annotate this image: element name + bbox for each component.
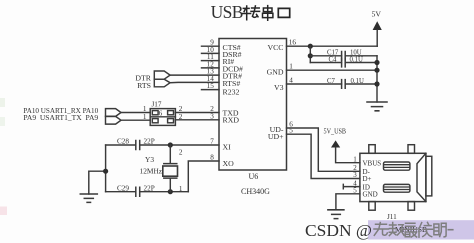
wire J17 to pin2 TXD bbox=[175, 112, 219, 114]
svg-text:PA9 USART1_TX PA9: PA9 USART1_TX PA9 bbox=[23, 113, 98, 122]
junction C4-gnd bbox=[374, 60, 379, 65]
svg-text:J17: J17 bbox=[152, 101, 162, 109]
wire to ground bbox=[89, 171, 106, 194]
svg-text:0.1U: 0.1U bbox=[350, 56, 363, 63]
wire C4 branch bbox=[310, 62, 377, 64]
svg-text:22P: 22P bbox=[144, 138, 155, 146]
svg-text:C28: C28 bbox=[117, 138, 129, 146]
wire left vertical bbox=[105, 145, 107, 192]
watermark highlight box bbox=[368, 220, 474, 239]
svg-text:2: 2 bbox=[179, 149, 183, 157]
svg-text:U6: U6 bbox=[249, 172, 259, 181]
svg-text:Y3: Y3 bbox=[145, 155, 154, 164]
svg-text:USB: USB bbox=[211, 2, 243, 22]
svg-text:CH340G: CH340G bbox=[241, 187, 270, 196]
svg-text:1: 1 bbox=[353, 155, 357, 163]
无 bbox=[374, 223, 389, 236]
svg-text:RTS: RTS bbox=[137, 81, 151, 90]
upper slot bbox=[384, 162, 410, 170]
port flag PA10 bbox=[106, 109, 122, 117]
svg-text:GND: GND bbox=[363, 191, 378, 199]
svg-text:1: 1 bbox=[143, 105, 147, 113]
svg-text:1: 1 bbox=[179, 185, 183, 193]
edge artifact strips bbox=[0, 98, 7, 215]
wire UD+ pin5 to USB D+ bbox=[287, 134, 360, 178]
wire 5V stem bbox=[376, 30, 378, 46]
svg-text:C4: C4 bbox=[329, 56, 338, 63]
svg-text:5: 5 bbox=[353, 187, 357, 195]
svg-text:1: 1 bbox=[143, 113, 147, 121]
svg-text:C29: C29 bbox=[117, 184, 129, 192]
svg-text:UD+: UD+ bbox=[268, 132, 284, 141]
U6 left pin name labels bbox=[223, 43, 243, 168]
title USB转串口 bbox=[211, 2, 290, 22]
svg-text:6: 6 bbox=[159, 109, 163, 117]
3D bevel bbox=[417, 153, 426, 201]
wire XI row bbox=[106, 144, 219, 146]
wire DTR to pin13 bbox=[170, 74, 219, 76]
junction pin1-gnd bbox=[374, 68, 379, 73]
svg-text:CSDN @: CSDN @ bbox=[305, 221, 372, 240]
svg-text:D+: D+ bbox=[363, 175, 372, 183]
ground (crystal) bbox=[80, 194, 97, 202]
wire ID stub bbox=[343, 184, 360, 188]
wire J17 to pin3 RXD bbox=[175, 119, 219, 121]
power 5V_USB symbol bbox=[331, 140, 340, 147]
wire USB GND to ground bbox=[336, 194, 360, 210]
转 bbox=[242, 6, 250, 20]
svg-text:GND: GND bbox=[267, 68, 284, 77]
hyphen bbox=[448, 229, 453, 231]
junction C7-gnd bbox=[374, 81, 379, 86]
svg-text:3: 3 bbox=[353, 171, 357, 179]
watermark CJK glyphs 无敌最俊朗- bbox=[374, 222, 453, 237]
svg-text:C7: C7 bbox=[327, 78, 336, 85]
svg-text:12MHz: 12MHz bbox=[140, 167, 163, 176]
USB connector J11 body bbox=[360, 145, 432, 211]
svg-text:5V_USB: 5V_USB bbox=[324, 127, 347, 136]
junction left-gnd bbox=[103, 169, 108, 174]
wire VCC stub down bbox=[309, 46, 311, 62]
俊 bbox=[419, 222, 432, 237]
口 bbox=[278, 8, 289, 17]
junction XI-crystal bbox=[168, 142, 173, 147]
wire C17 branch bbox=[310, 55, 377, 57]
wire VCC pin16 bbox=[287, 45, 378, 47]
svg-text:22P: 22P bbox=[144, 184, 155, 192]
wire 5V_USB stem to VBUS bbox=[336, 148, 360, 163]
svg-text:XI: XI bbox=[223, 143, 232, 152]
J11 pin numbers bbox=[353, 155, 357, 194]
wire GND vertical right bbox=[376, 56, 378, 102]
wire XO bottom row bbox=[106, 191, 189, 193]
svg-text:RXD: RXD bbox=[223, 116, 240, 125]
svg-text:V3: V3 bbox=[274, 83, 284, 92]
svg-text:R232: R232 bbox=[223, 87, 240, 96]
power 5V symbol bbox=[373, 21, 382, 30]
svg-text:0.1U: 0.1U bbox=[351, 78, 364, 85]
ground (USB) bbox=[328, 210, 344, 219]
敌 bbox=[389, 223, 404, 236]
串 bbox=[263, 6, 273, 21]
port flag PA9 bbox=[106, 116, 122, 124]
U6 right pin numbers bbox=[289, 39, 297, 135]
wires: NC stub pins 9,10,11,12,15 bbox=[202, 46, 220, 89]
mounting tab bottom-right bbox=[408, 202, 415, 211]
IC U6 CH340G body bbox=[219, 39, 287, 171]
junction VCC stub bbox=[308, 44, 313, 49]
ground (decoupling) bbox=[367, 102, 387, 111]
svg-text:XO: XO bbox=[223, 159, 235, 168]
J11 pin labels bbox=[363, 159, 382, 198]
wire GND pin1 bbox=[287, 69, 378, 71]
wire RTS to pin14 bbox=[170, 81, 219, 83]
wire UD- pin6 to USB D- bbox=[287, 128, 360, 171]
crystal Y3 bbox=[163, 145, 178, 192]
mounting tab top-left bbox=[369, 145, 375, 154]
svg-text:5V: 5V bbox=[372, 10, 382, 19]
U6 right pin name labels bbox=[267, 43, 284, 141]
U6 left pin numbers bbox=[207, 39, 215, 162]
mounting tab bottom-left bbox=[369, 202, 375, 211]
crystal circuit wires bbox=[89, 145, 219, 194]
junction XO-crystal bbox=[168, 189, 173, 194]
junction C17 tee bbox=[308, 53, 313, 58]
right lip bbox=[426, 156, 432, 196]
wire V3 pin4 through C7 bbox=[287, 83, 378, 85]
svg-text:VCC: VCC bbox=[267, 43, 283, 52]
最 bbox=[404, 223, 417, 237]
header J17 body bbox=[150, 109, 175, 126]
svg-text:J11: J11 bbox=[387, 213, 397, 221]
lower slot bbox=[384, 184, 410, 192]
mounting tab top-right bbox=[408, 145, 415, 154]
wire PA10 to J17 pin1 bbox=[121, 112, 150, 114]
wire XO riser bbox=[188, 161, 219, 192]
wire PA9 to J17 pin1 bbox=[121, 119, 150, 121]
svg-text:VBUS: VBUS bbox=[363, 159, 382, 167]
朗 bbox=[434, 223, 446, 237]
